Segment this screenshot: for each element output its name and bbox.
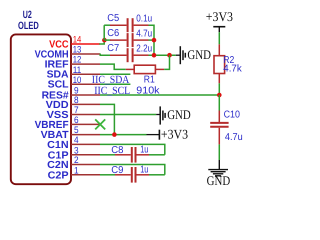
capacitor C8 bbox=[115, 154, 131, 156]
svg-text:1: 1 bbox=[74, 164, 79, 175]
pin 13 VCOMH stub bbox=[71, 53, 100, 55]
wire C6 row left bbox=[104, 39, 110, 41]
node junction bus C6 bbox=[152, 38, 157, 43]
wire C5 right to bus bbox=[149, 25, 155, 55]
pin 6 VBREF stub bbox=[71, 123, 100, 125]
svg-text:C6: C6 bbox=[107, 28, 119, 39]
svg-text:1u: 1u bbox=[140, 164, 148, 175]
wire VSS pin7 to GND bbox=[100, 114, 156, 116]
wire +3V3 to R2 bbox=[218, 32, 220, 44]
pin 3 C1P stub bbox=[71, 154, 100, 156]
pin 7 VSS stub bbox=[71, 114, 100, 116]
svg-text:+3V3: +3V3 bbox=[161, 126, 189, 141]
node junction bus C7 bbox=[152, 53, 157, 58]
svg-text:10: 10 bbox=[73, 74, 82, 85]
ground GND top-right symbol bbox=[176, 54, 180, 56]
wire C8 right side bbox=[149, 154, 165, 156]
wire R1 right up to C7 row bbox=[164, 55, 169, 69]
pin 2 C2N stub bbox=[71, 164, 100, 166]
capacitor C9 bbox=[115, 174, 131, 176]
wire junction down to C10 bbox=[218, 95, 220, 111]
wire C1N pin4 top of C8 loop bbox=[100, 144, 165, 154]
node junction VCC left bbox=[102, 38, 107, 43]
svg-text:C10: C10 bbox=[224, 110, 241, 121]
svg-text:4.7k: 4.7k bbox=[223, 64, 242, 75]
wire IREF pin12 to R1 bbox=[100, 64, 126, 69]
svg-text:C7: C7 bbox=[107, 43, 119, 54]
pin 5 VBAT stub bbox=[71, 134, 100, 136]
ground GND middle symbol bbox=[156, 114, 160, 116]
wire VDD pin8 down bbox=[100, 104, 114, 134]
svg-text:1u: 1u bbox=[140, 144, 148, 155]
pin 12 IREF stub bbox=[71, 63, 100, 65]
resistor R2 bbox=[218, 44, 220, 55]
svg-text:C2P: C2P bbox=[48, 170, 69, 181]
svg-text:C5: C5 bbox=[107, 13, 119, 24]
wire junction up to C5 row bbox=[103, 25, 105, 40]
svg-text:C1N: C1N bbox=[47, 140, 69, 151]
svg-text:4.7u: 4.7u bbox=[225, 132, 243, 143]
wire R2 to junction bbox=[218, 83, 220, 95]
pin 11 SDA stub bbox=[71, 73, 100, 75]
wire C9 right side bbox=[149, 174, 165, 176]
wire C10 to GND bbox=[218, 144, 220, 160]
svg-text:GND: GND bbox=[207, 173, 231, 188]
wire VCC pin14 to junction bbox=[99, 40, 104, 44]
power +3V3 middle symbol bbox=[147, 134, 160, 136]
capacitor C10 bbox=[218, 111, 220, 123]
pin 14 VCC stub bbox=[71, 43, 100, 45]
svg-text:SCL: SCL bbox=[48, 80, 69, 91]
no-connect X on pin 6 VBREF bbox=[95, 119, 105, 129]
capacitor C6 bbox=[110, 39, 127, 41]
node junction R2 C10 bbox=[217, 93, 222, 98]
wire C2N pin2 top of C9 loop bbox=[100, 165, 165, 175]
wire C5 row left bbox=[104, 24, 110, 26]
pin 1 C2P stub bbox=[71, 174, 100, 176]
wire VBAT pin5 to +3V3 bbox=[100, 134, 147, 136]
capacitor C7 bbox=[110, 54, 127, 56]
svg-text:+3V3: +3V3 bbox=[206, 9, 234, 24]
pin 9 RES# stub bbox=[71, 94, 100, 96]
svg-text:2.2u: 2.2u bbox=[136, 43, 152, 54]
svg-text:OLED: OLED bbox=[18, 20, 39, 32]
wire VCOMH pin13 to C7 bbox=[100, 54, 111, 55]
wire C2P pin1 to C9 bbox=[100, 174, 115, 176]
svg-text:GND: GND bbox=[167, 107, 191, 122]
svg-text:4.7u: 4.7u bbox=[136, 28, 152, 39]
svg-text:C9: C9 bbox=[111, 165, 124, 176]
svg-text:0.1u: 0.1u bbox=[136, 13, 152, 24]
pin 10 SCL stub bbox=[71, 83, 100, 85]
op-amp U2 OLED body box bbox=[11, 34, 71, 184]
svg-text:GND: GND bbox=[187, 47, 211, 62]
wire C7 row right to GND bbox=[149, 54, 176, 56]
svg-text:IIC_SCL: IIC_SCL bbox=[94, 85, 130, 97]
wire SCL pin10 bbox=[100, 83, 130, 85]
wire C1P pin3 to C8 bbox=[100, 154, 115, 156]
svg-text:C8: C8 bbox=[111, 145, 124, 156]
pin 4 C1N stub bbox=[71, 143, 100, 145]
capacitor C5 bbox=[110, 24, 127, 26]
node junction VDD-VBAT bbox=[112, 132, 117, 137]
svg-text:4: 4 bbox=[74, 134, 79, 145]
node junction R1 branch bbox=[167, 53, 172, 58]
wire SDA pin11 bbox=[100, 73, 130, 75]
power +3V3 top-right symbol bbox=[213, 26, 225, 28]
svg-text:R1: R1 bbox=[144, 74, 155, 85]
wire RES# pin9 to R2 C10 bbox=[100, 94, 219, 96]
resistor R1 bbox=[126, 68, 134, 70]
wire C6 right to bus bbox=[149, 39, 155, 41]
ground GND bottom symbol bbox=[218, 160, 220, 169]
pin 8 VDD stub bbox=[71, 103, 100, 105]
